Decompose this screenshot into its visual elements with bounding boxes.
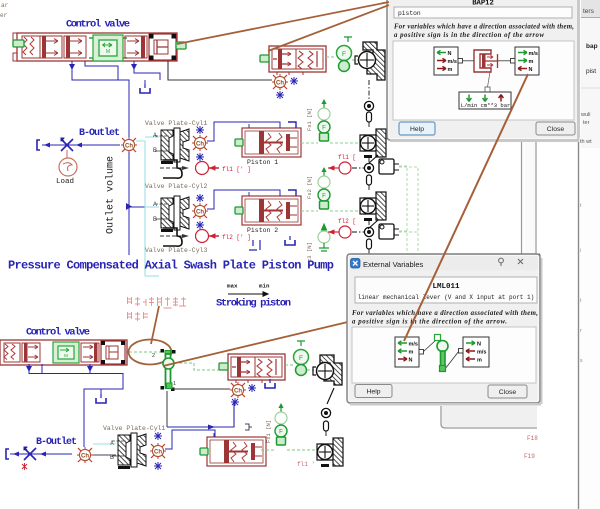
crossing marks [196,126,204,134]
chamber node Ch2 [192,135,208,151]
BAP right port box [511,47,540,75]
svg-text:Valve Plate-Cyl2: Valve Plate-Cyl2 [145,183,208,190]
piston actuator P3 [200,433,266,466]
tank T1 [140,84,150,93]
BAP piston icon [463,50,513,92]
wires below control valve [72,61,160,138]
mass block M1 [379,159,394,174]
control valve CV2 [0,340,127,365]
control valve CV1 [13,33,186,61]
svg-text:Fs1 [N]: Fs1 [N] [265,420,272,443]
B-outlet line bottom [10,453,72,455]
svg-text:B: B [153,217,157,223]
svg-text:a positive sign is in the dire: a positive sign is in the direction of t… [394,32,544,39]
svg-text:For variables which have a dir: For variables which have a direction ass… [352,310,538,317]
svg-text:m: m [477,358,482,364]
svg-text:Valve Plate-Cyl3: Valve Plate-Cyl3 [145,247,208,254]
EV right port box [459,337,490,367]
svg-text:th wt: th wt [580,139,592,145]
chinese annotation (painted strokes) [127,297,186,321]
green port tags [13,40,24,47]
compensator valve PC2 [219,354,285,383]
B-outlet line with throttle [37,138,120,186]
svg-text:i: i [580,248,581,254]
shaft node N4 [321,408,330,417]
BAP dialog frame [387,0,579,140]
shaft link [367,112,372,122]
BAP buttons [399,122,435,135]
svg-text:er: er [0,12,8,19]
tank T4 [265,379,275,388]
annotation line E: chinese text to ellipse [151,306,159,344]
svg-text:F: F [342,51,346,58]
BAP bottom units box [459,92,511,109]
svg-text:F19: F19 [524,453,535,460]
svg-text:fl1 [: fl1 [ [338,154,356,161]
svg-text:M: M [106,49,110,55]
chamber node Ch7 [150,443,166,459]
BAP diagram box [393,41,574,120]
svg-text:pist: pist [586,68,596,75]
shaft link [324,421,329,431]
svg-text:ar: ar [1,2,9,9]
svg-text:N: N [409,358,413,364]
feedback sensor fl1b [328,162,351,174]
force sensor chain Fs1 [318,99,330,141]
green dashed links [301,143,418,254]
svg-text:linear mechanical lever (V and: linear mechanical lever (V and X input a… [358,294,534,301]
svg-text:External Variables: External Variables [363,260,424,269]
svg-text:N: N [448,51,452,57]
svg-text:a positive sign is in the dire: a positive sign is in the direction of t… [352,319,507,326]
mid background window bottom corner [441,406,537,428]
swash mechanism SW1 (bottom) [313,355,342,385]
Ch node under PC2 [230,382,246,398]
shaft dash-dot segments [352,122,369,255]
svg-text:Control valve: Control valve [26,327,90,339]
lever L1 (selected) [161,349,177,391]
shaft node N1 [364,101,373,110]
svg-text:Fs2 [N]: Fs2 [N] [306,176,313,199]
leakage sensor fl2 [196,230,220,243]
svg-text:Control valve: Control valve [66,19,130,31]
swash piston SP1 [360,129,386,158]
svg-text:m: m [409,350,414,356]
piston actuator P1 [235,124,301,157]
svg-text:wuli: wuli [580,112,590,118]
cyan pilot lines [136,137,159,276]
svg-text:B: B [153,148,157,154]
svg-text:Fs1 [N]: Fs1 [N] [306,108,313,131]
dashed link into lever [129,351,161,353]
shaft node N3 [364,227,373,236]
EV lever icon [424,335,460,372]
svg-text:N: N [477,342,481,348]
EV left port box [395,337,424,367]
svg-text:m/s: m/s [409,342,418,348]
crossing mark [231,398,239,406]
right background panel [578,0,600,509]
annotation line C to EV lever [404,74,528,341]
EV dialog frame [347,254,540,403]
svg-text:A: A [153,202,157,208]
load element [59,158,77,176]
svg-text:Help: Help [367,389,381,396]
solenoid green box [89,35,127,61]
svg-text:Piston 2: Piston 2 [247,227,278,234]
BAP left port box [434,47,463,75]
EV diagram box [352,327,536,383]
svg-text:fl2 [: fl2 [ [338,218,356,225]
svg-text:F18: F18 [527,435,538,442]
svg-text:Help: Help [410,126,424,133]
green sensor pair bottom [297,341,305,346]
link lever to PC2 [174,363,222,370]
svg-text:Pressure Compensated Axial Swa: Pressure Compensated Axial Swash Plate P… [8,259,334,273]
svg-text:For variables which have a dir: For variables which have a direction ass… [394,24,574,31]
shaft node N2 [364,163,373,172]
svg-text:Piston 1: Piston 1 [247,159,278,166]
crossing marks [196,194,204,202]
row1 leak line + sensor [160,167,182,169]
svg-text:Load: Load [56,178,74,186]
svg-text:Valve Plate-Cyl1: Valve Plate-Cyl1 [145,120,208,127]
svg-text:min: min [259,283,270,290]
highlight ellipse [129,340,172,365]
EV buttons [355,385,392,398]
wires below CV2 [29,364,123,447]
svg-text:N: N [529,67,533,73]
svg-text:Stroking piston: Stroking piston [216,298,291,310]
piston actuator P2 [235,192,301,225]
svg-text:fl1 ': fl1 ' [297,461,315,468]
swash mechanism SW0 [355,42,385,80]
svg-text:B-Outlet: B-Outlet [36,436,77,448]
svg-text:bap: bap [586,43,598,50]
svg-text:m/s: m/s [529,51,538,57]
right end section with black squares [149,34,176,60]
svg-text:1: 1 [173,381,176,387]
BAP name field [394,7,572,18]
svg-text:m: m [529,59,534,65]
svg-text:ter: ter [583,120,590,126]
svg-text:m/s: m/s [477,350,486,356]
chamber node Ch4 [272,74,288,90]
chamber node Ch6 [77,447,93,463]
svg-text:F: F [299,355,303,362]
mech line lever to Ch [172,388,230,390]
feedback sensor fl2b [328,226,351,238]
crossing marks [290,77,298,85]
svg-text:Close: Close [499,389,517,396]
EV title bar [349,256,538,270]
svg-text:B: B [110,455,114,461]
EV name box [355,277,537,303]
outlet volume feed line [128,152,130,255]
svg-text:max: max [227,283,238,290]
swash piston SP3 [317,438,343,467]
svg-text:M: M [64,353,68,358]
svg-text:B-Outlet: B-Outlet [79,127,120,139]
green sensor pair [326,37,358,72]
svg-text:L/min cm**3 bar: L/min cm**3 bar [461,102,511,109]
compensator valve PC1 [260,46,326,75]
crossing marks [154,432,162,440]
svg-text:fl2 [' ]: fl2 [' ] [222,234,251,241]
svg-text:A: A [153,133,157,139]
leakage sensor fl1 [196,162,220,175]
svg-text:ters: ters [583,8,595,15]
svg-text:m: m [448,67,453,73]
annotation line B to compensator [268,5,389,51]
valve plate assembly VP2 [155,196,189,232]
svg-text:fl1 [' ]: fl1 [' ] [222,166,251,173]
mass block M2 [379,224,394,239]
svg-text:Close: Close [547,126,565,133]
mech drive line [167,402,234,427]
svg-text:Outlet volume: Outlet volume [105,156,117,234]
annotation line D: ellipse to EV dialog [163,321,352,366]
svg-text:2: 2 [152,353,155,359]
chamber node Ch1 (outlet volume) [121,137,137,153]
mechanical line to compensator [168,61,272,80]
swash piston SP2 [360,192,386,221]
svg-text:BAP12: BAP12 [472,0,494,8]
pin + close glyphs [499,258,523,266]
crossing marks [248,384,256,392]
mid background window edge band [521,142,537,254]
force sensor chain Fs1b [275,403,287,445]
valve plate assembly VP1 [155,128,189,164]
svg-text:LML011: LML011 [432,283,460,291]
valve plate assembly VP4 [112,433,146,469]
svg-text:Valve Plate-Cyl1: Valve Plate-Cyl1 [103,425,166,432]
svg-text:m/s: m/s [448,59,457,65]
tank T2 [285,236,295,245]
force sensor chain Fs2 [318,167,330,209]
tank T3 [96,394,106,403]
chamber node Ch3 [192,203,208,219]
svg-text:piston: piston [398,10,421,17]
shaft chain [368,80,370,101]
annotation line A to control valve [177,2,389,44]
